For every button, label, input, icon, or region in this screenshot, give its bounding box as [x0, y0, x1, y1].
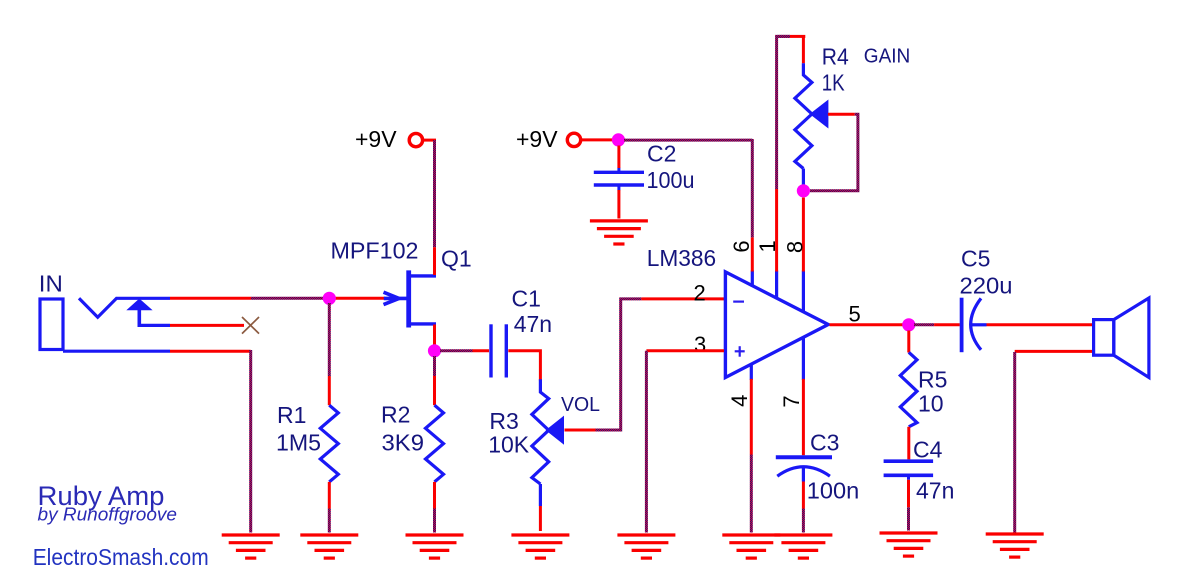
wire ring to X: [170, 324, 244, 327]
svg-text:LM386: LM386: [647, 245, 717, 271]
supply +9V circle C2: [567, 133, 580, 146]
svg-text:ElectroSmash.com: ElectroSmash.com: [33, 544, 209, 570]
op-amp minus input: [733, 301, 744, 303]
svg-text:+9V: +9V: [516, 126, 558, 152]
wire speaker return: [1015, 351, 1092, 532]
ground pin3: [617, 535, 675, 558]
svg-text:47n: 47n: [916, 478, 954, 504]
R4 wiper arrow: [811, 101, 828, 128]
ground R3: [511, 535, 569, 558]
jack ring contact arrow: [128, 299, 170, 327]
svg-text:6: 6: [729, 240, 754, 252]
svg-text:+9V: +9V: [355, 126, 397, 152]
node output junction dot: [902, 318, 915, 331]
node R4 junction dot: [797, 184, 810, 197]
svg-text:R3: R3: [489, 408, 518, 434]
svg-text:Q1: Q1: [441, 246, 472, 272]
wire tip to gate node: [170, 297, 385, 300]
wire C4 to ground: [907, 480, 910, 531]
svg-text:C3: C3: [810, 429, 839, 455]
speaker SP1: [1094, 298, 1149, 378]
op-amp U1 LM386: [725, 272, 828, 378]
resistor R5: [900, 331, 917, 460]
svg-text:C1: C1: [512, 286, 541, 312]
svg-text:IN: IN: [39, 271, 63, 297]
capacitor C1: [491, 324, 506, 377]
capacitor C3: [776, 457, 832, 481]
wire +9V to drain: [424, 140, 437, 275]
node supply junction dot: [612, 133, 625, 146]
wire source to node: [433, 325, 436, 346]
wire node to pin6: [624, 139, 752, 142]
svg-text:R2: R2: [381, 402, 410, 428]
svg-text:5: 5: [849, 302, 861, 327]
svg-text:3: 3: [694, 332, 706, 357]
ground R1: [300, 535, 358, 558]
svg-text:R4: R4: [822, 44, 849, 70]
wire C3 to ground: [802, 482, 805, 533]
no-connect X: [242, 317, 259, 334]
ground jack: [222, 535, 280, 558]
capacitor C4: [884, 461, 934, 480]
wire sleeve to ground: [170, 350, 251, 533]
resistor R1: [320, 303, 338, 533]
pin 8 lead: [802, 198, 805, 313]
op-amp plus input: [735, 346, 745, 357]
wire pin3 to ground: [646, 351, 724, 533]
potentiometer R4: [795, 36, 812, 185]
ground speaker: [986, 534, 1044, 557]
svg-text:7: 7: [779, 395, 804, 407]
wire node to C1: [440, 349, 489, 352]
transistor Q1 MPF102: [409, 270, 436, 327]
svg-text:8: 8: [783, 241, 808, 253]
svg-text:47n: 47n: [514, 311, 552, 337]
node gate junction dot: [323, 292, 336, 305]
svg-text:100n: 100n: [807, 478, 860, 504]
capacitor C5: [962, 298, 987, 353]
svg-text:3K9: 3K9: [382, 430, 425, 456]
wire pin5 to output node: [830, 323, 904, 326]
ground pin4: [722, 535, 780, 558]
wire wiper to pin2: [565, 299, 725, 430]
node IN jack body: [40, 299, 63, 350]
svg-text:1M5: 1M5: [276, 430, 321, 456]
svg-text:1: 1: [755, 240, 780, 252]
pin 1 lead: [777, 36, 790, 299]
svg-text:R5: R5: [918, 367, 947, 393]
pin 7 lead: [802, 337, 805, 455]
wire C1 to R3: [508, 351, 540, 381]
pin 6 lead: [751, 139, 754, 287]
Q1 gate arrow: [384, 292, 408, 304]
svg-text:2: 2: [694, 281, 706, 306]
wire R4 wiper loop: [810, 114, 858, 191]
svg-text:by Runoffgroove: by Runoffgroove: [38, 505, 178, 525]
svg-text:4: 4: [727, 395, 752, 407]
resistor R2: [426, 356, 444, 533]
ground R2: [406, 535, 464, 558]
wire R4 top: [777, 35, 805, 38]
svg-text:10K: 10K: [488, 432, 530, 458]
potentiometer R3: [532, 379, 549, 531]
wire +9V to node: [582, 138, 613, 141]
R3 wiper arrow: [547, 417, 564, 444]
svg-text:VOL: VOL: [561, 394, 600, 416]
jack tip contact: [79, 298, 170, 317]
svg-text:MPF102: MPF102: [331, 238, 419, 264]
svg-text:R1: R1: [277, 402, 306, 428]
node source junction dot: [428, 344, 441, 357]
wire C2 leads: [617, 146, 620, 219]
svg-text:GAIN: GAIN: [864, 46, 911, 68]
svg-text:C5: C5: [961, 246, 990, 272]
svg-text:1K: 1K: [822, 69, 846, 95]
supply +9V circle Q1: [409, 133, 422, 146]
ground C2: [590, 221, 648, 244]
svg-text:100u: 100u: [647, 167, 695, 193]
wire node to C5: [914, 323, 960, 326]
svg-text:C2: C2: [647, 141, 676, 167]
ground C3: [774, 535, 832, 558]
svg-text:220u: 220u: [960, 273, 1013, 299]
pin 4 lead: [750, 364, 753, 533]
svg-text:C4: C4: [913, 436, 943, 462]
svg-text:10: 10: [918, 391, 944, 417]
ground C4: [880, 533, 938, 556]
capacitor C2: [594, 168, 644, 191]
wire C5 to speaker: [987, 323, 1093, 326]
jack sleeve lead: [63, 350, 170, 353]
